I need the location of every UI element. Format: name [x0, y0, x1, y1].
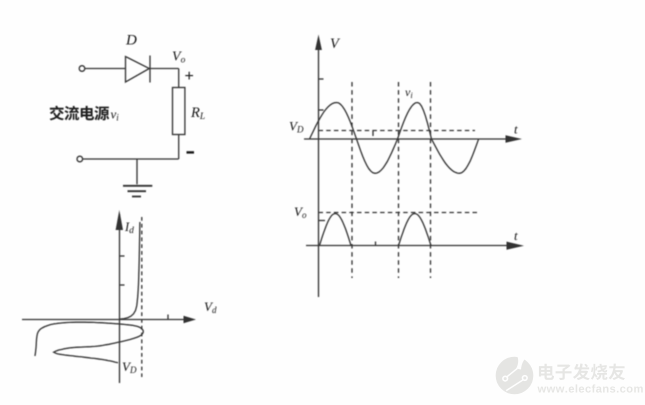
dashed line at VD — [141, 217, 143, 377]
watermark text 电子发烧友 — [539, 364, 625, 381]
wire corner down to resistor — [178, 69, 180, 88]
diode D triangle — [126, 57, 150, 83]
wire diode to corner — [150, 68, 179, 70]
Id axis (vertical) — [119, 214, 121, 383]
svg-text:+: + — [185, 68, 194, 85]
wire top-left to diode — [85, 68, 126, 70]
V axis (vertical, both plots) — [318, 46, 320, 297]
label AC source 交流电源 — [50, 106, 110, 121]
t axis upper arrowhead — [506, 135, 523, 142]
bottom terminal circle — [77, 156, 83, 162]
input sine vi — [310, 103, 479, 174]
input waveform rotated (below axis) — [35, 322, 143, 363]
diode exponential curve — [120, 222, 140, 319]
Vd axis (horizontal) — [22, 319, 187, 321]
ground bar 3 — [132, 196, 141, 198]
VD dashed level line — [319, 130, 476, 132]
watermark url www.elecfans.com — [537, 384, 642, 392]
output pulse 2 — [399, 214, 432, 246]
minus polarity — [187, 151, 195, 153]
tick Id axis 1 — [120, 255, 125, 257]
svg-text:D: D — [125, 33, 137, 49]
wire resistor to bottom — [178, 135, 180, 160]
Id axis arrowhead — [116, 210, 123, 230]
ground stem — [136, 159, 138, 184]
Vo dashed level line — [319, 212, 480, 214]
ground bar 1 — [123, 185, 152, 187]
Vd axis arrowhead — [184, 316, 197, 324]
dashed vertical 1 — [351, 82, 353, 278]
ground bar 2 — [128, 190, 147, 192]
bottom wire — [83, 158, 179, 160]
tick V axis lower — [319, 220, 326, 222]
tick Id axis 2 — [120, 284, 125, 286]
dashed vertical 2 — [398, 82, 400, 278]
tick upper t axis — [372, 131, 374, 137]
svg-text:t: t — [514, 122, 518, 137]
V axis arrowhead — [315, 35, 322, 51]
svg-text:t: t — [514, 228, 518, 243]
tick V axis 2 — [319, 109, 324, 111]
t axis lower — [306, 245, 507, 247]
tick Vd axis — [167, 315, 169, 320]
resistor R_L body — [173, 88, 185, 135]
dashed vertical 3 — [430, 82, 432, 278]
output pulse 1 — [320, 214, 352, 246]
top terminal circle — [79, 66, 85, 72]
t axis upper — [304, 138, 506, 140]
diode cathode bar — [149, 56, 151, 83]
watermark logo circle — [496, 353, 534, 394]
tick lower t axis — [375, 242, 377, 246]
t axis lower arrowhead — [507, 242, 525, 250]
tick V axis 1 — [319, 78, 324, 80]
